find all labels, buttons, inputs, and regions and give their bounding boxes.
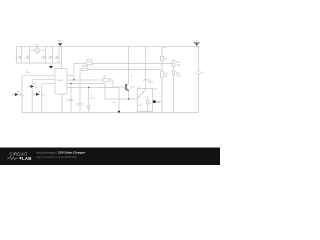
ground flag below panel box xyxy=(49,66,53,69)
wire relay bottom stub xyxy=(145,111,147,112)
wire node B feed y=69.5 xyxy=(80,69,162,71)
rectifier BR1 xyxy=(30,46,46,53)
op-amp U1 box xyxy=(55,69,67,95)
resistor R1 xyxy=(86,62,93,65)
wire vertical x=74 xyxy=(73,64,75,80)
svg-text:Q1: Q1 xyxy=(130,76,134,78)
dark marks xyxy=(15,43,200,114)
svg-text:D3: D3 xyxy=(36,88,40,90)
wire C2 branch x=71 xyxy=(70,84,72,113)
relay output node dot xyxy=(153,100,156,103)
resistor R5 xyxy=(161,71,164,77)
wire collector riser x=128.5 xyxy=(128,46,130,83)
svg-text:4148: 4148 xyxy=(90,98,95,100)
tiny gray labels xyxy=(15,40,205,107)
svg-text:2N22: 2N22 xyxy=(130,86,136,88)
svg-text:1u: 1u xyxy=(54,57,56,59)
LED D5 body xyxy=(36,93,40,96)
wire emitter to relay coil xyxy=(105,91,137,99)
wire IC ground pin xyxy=(61,94,63,113)
wire LED row feed y=79.7 xyxy=(32,79,55,81)
svg-text:LAB: LAB xyxy=(22,156,32,161)
svg-text:R2 1k: R2 1k xyxy=(82,65,89,68)
transistor Q1 base bar xyxy=(125,84,126,90)
resistor R4b xyxy=(161,57,164,61)
diode D1 xyxy=(87,106,90,109)
svg-text:adcoolvintage / 12V Solar Char: adcoolvintage / 12V Solar Charger xyxy=(37,151,86,155)
svg-text:1u: 1u xyxy=(15,57,17,59)
LED D3 leads xyxy=(28,85,36,88)
svg-text:1u: 1u xyxy=(47,57,49,59)
svg-text:R7: R7 xyxy=(164,48,168,50)
svg-text:1k: 1k xyxy=(165,75,168,78)
junction x=71 xyxy=(70,83,71,84)
wire IC pin 7 stub xyxy=(67,74,74,76)
wire LED D5 riser to U1 pin xyxy=(42,84,55,95)
wire box divider x=21.5 xyxy=(21,46,23,63)
svg-text:12V: 12V xyxy=(194,40,198,42)
logo wire squiggle xyxy=(7,157,18,160)
wire vertical x=162 from rail xyxy=(161,46,163,112)
switch S1 left leg xyxy=(21,75,23,112)
capacitor C8 xyxy=(55,56,59,59)
svg-text:10k: 10k xyxy=(176,64,181,67)
svg-text:RLY: RLY xyxy=(139,105,144,107)
wire drop through LED D3 to bus xyxy=(31,80,33,113)
svg-text:LM317: LM317 xyxy=(57,80,64,82)
svg-text:1u: 1u xyxy=(24,57,26,59)
resistor R6 xyxy=(172,60,175,66)
net flag +12V right xyxy=(194,43,200,47)
wire IC pin 5 xyxy=(67,84,105,100)
wire riser x=145.5 with C1 xyxy=(145,46,147,90)
svg-text:D5: D5 xyxy=(42,95,46,97)
svg-text:100u: 100u xyxy=(148,81,154,84)
junction x=88 xyxy=(88,87,89,88)
svg-text:R3: R3 xyxy=(103,75,107,78)
diode D1 branch x=88.7 xyxy=(88,88,90,113)
wire relay to x=162 xyxy=(156,101,163,103)
svg-text:R1 1k: R1 1k xyxy=(86,59,93,62)
svg-text:D4: D4 xyxy=(21,96,25,98)
svg-text:10k: 10k xyxy=(164,58,168,60)
svg-text:12V: 12V xyxy=(176,75,181,78)
capacitor C6 xyxy=(42,56,46,59)
capacitor C2 xyxy=(69,100,73,101)
LED D4 body xyxy=(15,93,19,96)
svg-text:RLY: RLY xyxy=(154,89,158,91)
capacitor C7 xyxy=(49,56,53,59)
LED D3 body xyxy=(31,85,35,88)
relay K1 box xyxy=(137,89,152,112)
junction x=74 node A xyxy=(73,79,74,80)
solar panel box PS1 outline xyxy=(17,46,62,63)
wire S1 top to U1 xyxy=(22,74,55,76)
svg-text:V1: V1 xyxy=(202,73,205,75)
wire top rail V+ xyxy=(17,45,199,47)
svg-text:1u: 1u xyxy=(41,57,43,59)
wire node A feed y=63.5 xyxy=(74,63,174,65)
wire right drop to battery xyxy=(198,46,200,112)
relay coil xyxy=(146,97,149,112)
capacitor C5 xyxy=(26,56,30,59)
wire box divider x=52.5 xyxy=(52,46,54,63)
wire IC pin 4 xyxy=(67,88,119,113)
wire box divider x=59 xyxy=(58,46,60,63)
svg-text:EN: EN xyxy=(113,102,116,104)
svg-text:24V: 24V xyxy=(58,40,63,43)
LED D5 leads xyxy=(34,93,42,96)
wire box divider x=29.5 xyxy=(29,46,31,63)
wire IC pin 6 to R3 xyxy=(67,79,103,81)
footer bar xyxy=(0,148,220,166)
svg-text:L1: L1 xyxy=(149,103,152,105)
capacitor C1 xyxy=(143,79,147,80)
voltmeter M1 xyxy=(197,71,201,75)
junction emitter bus xyxy=(128,98,129,99)
wire ground bus bottom xyxy=(22,112,199,114)
LED D4 leads xyxy=(12,93,22,96)
net flag V+ on rail xyxy=(58,43,62,46)
ground below panel box xyxy=(50,63,52,66)
wire R3 to base xyxy=(110,80,126,87)
resistor R2 xyxy=(81,68,88,71)
capacitor C3 xyxy=(78,104,82,105)
ground flag on bus x=119 xyxy=(118,111,121,114)
wire box divider x=45.75 xyxy=(45,46,47,63)
resistor R3 xyxy=(103,79,110,82)
zener diode D2 xyxy=(172,71,175,76)
svg-text:SW: SW xyxy=(26,73,29,75)
wire panel box to U1 input xyxy=(61,63,63,69)
wire drop x=41.8 to bus xyxy=(41,94,43,112)
capacitor C4 xyxy=(18,56,22,59)
relay switch contact xyxy=(138,89,145,98)
wire vertical x=80 with C3 xyxy=(79,70,81,113)
svg-text:http://circuitlab.com/cwot082x: http://circuitlab.com/cwot082xPgy xyxy=(37,155,78,159)
logo diamond xyxy=(19,157,22,160)
wire vertical x=173.5 xyxy=(173,66,175,112)
svg-text:BAT: BAT xyxy=(156,101,161,104)
transistor Q1 arms xyxy=(127,83,129,86)
